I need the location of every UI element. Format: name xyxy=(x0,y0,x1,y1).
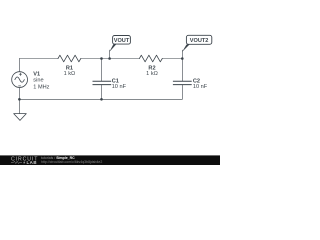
node C1 bottom xyxy=(100,98,103,101)
flag VOUT2 xyxy=(182,35,212,52)
svg-text:V1: V1 xyxy=(33,72,40,78)
capacitor C2 plates xyxy=(173,80,192,82)
watermark text xyxy=(41,156,102,164)
svg-text:1 MHz: 1 MHz xyxy=(33,85,49,91)
svg-text:VOUT: VOUT xyxy=(114,38,130,44)
svg-text:VOUT2: VOUT2 xyxy=(190,38,209,44)
ground stub xyxy=(19,99,21,113)
svg-text:10 nF: 10 nF xyxy=(112,84,127,90)
wire top rail left segment xyxy=(19,58,58,60)
V1 sine wave xyxy=(15,77,24,82)
capacitor C1 top lead xyxy=(101,59,103,82)
flag stub VOUT xyxy=(109,50,111,59)
bottom rail wire xyxy=(19,98,182,100)
wire R2 to VOUT2 node xyxy=(162,58,182,60)
capacitor C1 plates xyxy=(93,80,112,82)
V1 minus sign xyxy=(18,85,21,87)
node C1 top xyxy=(100,57,103,60)
capacitor C2 bottom lead xyxy=(181,85,183,100)
wire V1 bottom xyxy=(18,88,20,100)
svg-text:1 kΩ: 1 kΩ xyxy=(146,71,158,77)
svg-text:sine: sine xyxy=(33,78,43,84)
node V1/ground junction xyxy=(18,98,21,101)
watermark bar xyxy=(0,155,220,165)
resistor R2 xyxy=(139,55,162,62)
wire top-left vertical xyxy=(18,59,20,72)
wire R1 to VOUT node xyxy=(81,58,140,60)
ground triangle xyxy=(14,114,27,121)
V1 plus sign xyxy=(18,73,22,86)
svg-text:http://circuitlab.com/c/6kv4q3: http://circuitlab.com/c/6kv4q3b8jdsb4e2 xyxy=(41,160,102,164)
flag stub VOUT2 xyxy=(181,50,183,59)
capacitor C1 bottom lead xyxy=(101,85,103,100)
capacitor C2 top lead xyxy=(181,59,183,82)
voltage source V1 circle xyxy=(12,72,28,88)
svg-text:LAB: LAB xyxy=(27,160,38,165)
node VOUT xyxy=(108,57,111,60)
CircuitLab logo xyxy=(11,157,38,166)
node VOUT2 xyxy=(181,57,184,60)
svg-text:1 kΩ: 1 kΩ xyxy=(64,71,76,77)
labels xyxy=(33,65,207,90)
flag VOUT xyxy=(109,36,130,53)
svg-text:10 nF: 10 nF xyxy=(193,84,208,90)
resistor R1 xyxy=(58,55,81,62)
node dots xyxy=(18,57,184,100)
